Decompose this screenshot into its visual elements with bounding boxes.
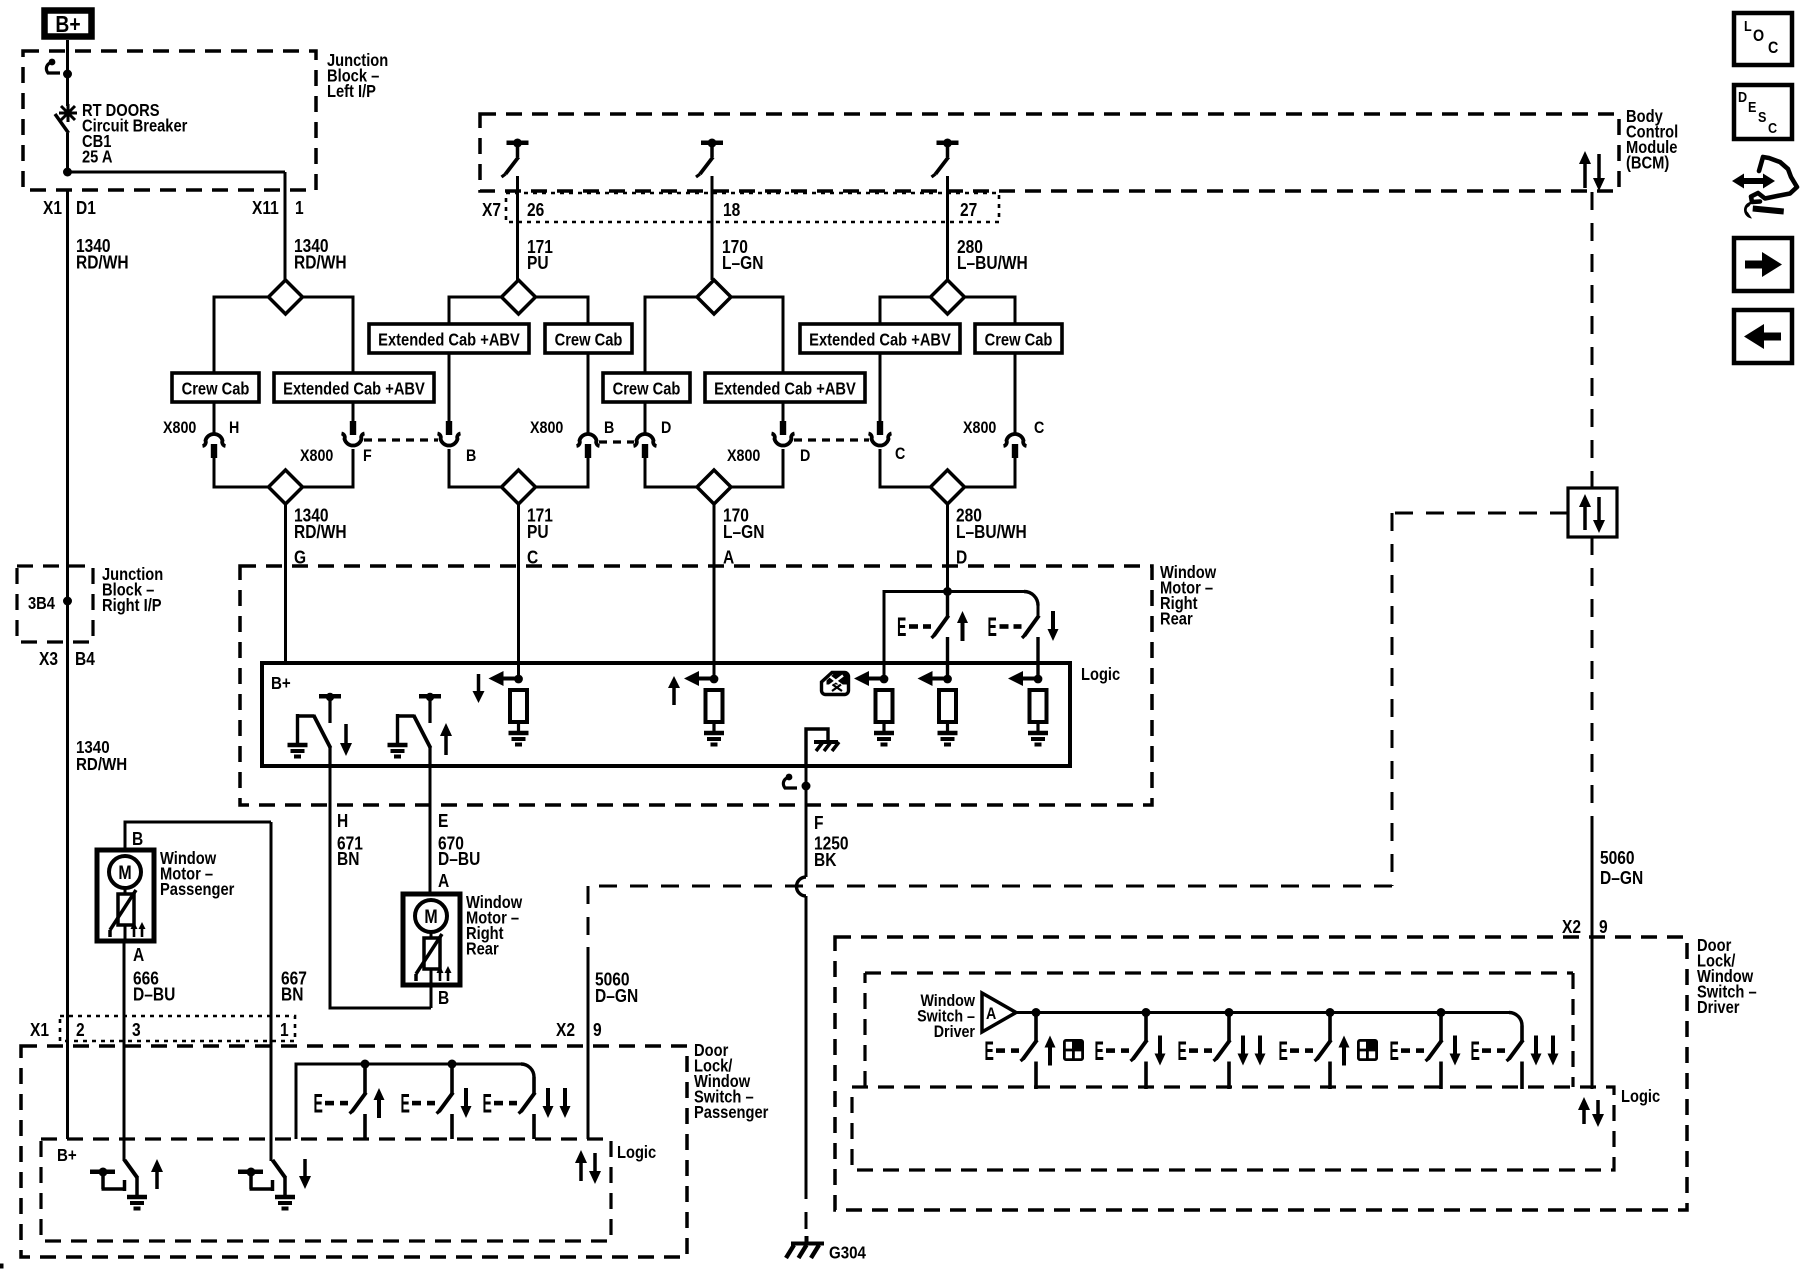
connector X3 B4 labels <box>39 649 95 670</box>
circuit breaker CB1 symbol <box>55 104 77 133</box>
wire 280 L-BU/WH to motor switches <box>946 504 949 592</box>
loop3 right branch wire lower <box>782 449 785 489</box>
svg-text:X800: X800 <box>727 447 761 465</box>
svg-text:2: 2 <box>76 1020 85 1041</box>
X7 pin 26 label <box>527 200 544 221</box>
svg-text:PU: PU <box>527 253 549 274</box>
svg-text:RD/WH: RD/WH <box>294 252 347 273</box>
motor RR internal rail <box>883 590 1039 616</box>
X7 pin 27 label <box>960 200 977 221</box>
X7 pin 18 label <box>723 200 740 221</box>
window switch driver label <box>917 992 976 1041</box>
svg-text:9: 9 <box>593 1020 602 1041</box>
motor RR wire rail-left to logic <box>883 590 886 679</box>
junction block right label <box>102 565 163 615</box>
svg-text:E: E <box>897 612 906 642</box>
svg-text:X2: X2 <box>556 1020 575 1041</box>
wire 5060 D-GN label passenger <box>595 969 638 1006</box>
loop3 right connector label D <box>800 447 810 465</box>
door lock window switch passenger dashed box <box>21 1046 687 1257</box>
svg-text:A: A <box>438 871 449 892</box>
svg-text:S: S <box>1758 108 1766 125</box>
sidebar wiring harness icon <box>1732 157 1797 219</box>
wire B+ to breaker <box>66 40 69 106</box>
svg-text:Extended Cab +ABV: Extended Cab +ABV <box>809 330 951 349</box>
motor logic window glass icon <box>822 673 849 695</box>
motor logic resistor branch down-switch <box>1008 671 1048 745</box>
svg-text:E: E <box>314 1088 323 1118</box>
window motor passenger text label <box>160 849 235 899</box>
motor logic B+ label <box>271 673 291 694</box>
loop1 top legs <box>214 296 353 374</box>
driver rail dot 5 <box>1437 1008 1446 1017</box>
X1 pin 3 label <box>132 1020 141 1041</box>
svg-text:RD/WH: RD/WH <box>76 754 127 775</box>
svg-text:Right I/P: Right I/P <box>102 596 162 615</box>
connector X1 D1 labels <box>43 198 96 219</box>
svg-text:(BCM): (BCM) <box>1626 153 1669 172</box>
driver switch 3 E--/ <box>1178 1013 1266 1090</box>
loop2 bottom diamond junction <box>502 470 536 504</box>
connector X7 strip <box>506 193 999 222</box>
svg-text:C: C <box>1768 119 1777 136</box>
loop4 right branch wire lower <box>1014 457 1017 489</box>
svg-text:O: O <box>1753 27 1764 45</box>
loop1 right connector label F <box>363 447 372 465</box>
svg-text:D: D <box>661 419 671 437</box>
circuit breaker CB1 label <box>82 101 188 167</box>
junction block right I/P dashed box <box>17 566 93 642</box>
motor RR rail junction dot <box>943 587 952 596</box>
svg-text:Left I/P: Left I/P <box>327 82 376 101</box>
svg-text:D–GN: D–GN <box>595 986 638 1007</box>
BCM window switch pin 27 <box>932 139 959 178</box>
loop2 left option box [Extended Cab +ABV] <box>369 324 529 353</box>
passenger logic switch up <box>90 1159 163 1209</box>
svg-text:Extended Cab +ABV: Extended Cab +ABV <box>283 379 425 398</box>
svg-text:E: E <box>438 811 448 832</box>
loop2 top legs <box>449 296 588 325</box>
loop1 right branch wire lower <box>352 449 355 489</box>
svg-text:F: F <box>814 813 823 834</box>
wire 5060 D-GN label driver <box>1600 848 1643 889</box>
svg-text:D: D <box>800 447 810 465</box>
connector X2 9 labels driver <box>1562 917 1608 938</box>
wire 5060 D-GN passenger segment <box>587 947 590 1139</box>
wire 1340 RD/WH label lower <box>76 737 127 775</box>
loop4 left connector label C <box>895 445 905 463</box>
svg-text:Logic: Logic <box>1081 665 1120 684</box>
svg-text:1: 1 <box>295 198 304 219</box>
svg-text:X800: X800 <box>963 419 997 437</box>
loop2 left branch wire lower <box>448 449 451 489</box>
svg-text:F: F <box>363 447 372 465</box>
BCM window up switch pin 26 <box>502 139 529 178</box>
wire 670 D-BU (E) vertical <box>429 766 432 894</box>
driver logic dashed box <box>852 1087 1614 1170</box>
serial data square arrows <box>1579 494 1605 533</box>
loop1 left option box [Crew Cab] <box>172 373 259 402</box>
passenger logic switch down <box>238 1159 311 1209</box>
svg-text:E: E <box>1390 1036 1399 1066</box>
svg-text:3B4: 3B4 <box>28 594 55 613</box>
wire junction to X11 drop <box>68 172 286 190</box>
loop2 right option box [Crew Cab] <box>545 324 632 353</box>
connector hug on 1250 BK wire <box>783 774 810 791</box>
svg-text:H: H <box>229 419 239 437</box>
svg-text:Passenger: Passenger <box>694 1103 769 1122</box>
loop2 right connector label X800 <box>530 419 564 437</box>
svg-text:B: B <box>438 988 449 1009</box>
driver rail dot 4 <box>1326 1008 1335 1017</box>
wire 170 L-GN to motor logic <box>713 504 716 679</box>
svg-text:BN: BN <box>281 984 303 1005</box>
sidebar DESC box <box>1734 85 1792 139</box>
passenger up switch E--/ <box>314 1064 385 1139</box>
motor logic resistor branch A <box>668 671 724 745</box>
loop2 top diamond junction <box>502 280 536 314</box>
wire 667 BN label <box>281 968 307 1005</box>
connector X7 label <box>482 200 501 221</box>
driver inner dashed box <box>865 973 1573 1087</box>
motor logic box <box>262 663 1070 766</box>
svg-text:Crew Cab: Crew Cab <box>555 330 623 349</box>
svg-text:Logic: Logic <box>1621 1087 1660 1106</box>
wire 171 PU label C column <box>527 505 553 568</box>
wire 5060 D-GN driver segment <box>1591 818 1594 1089</box>
svg-text:D: D <box>1738 88 1747 105</box>
wire 666 D-BU segment <box>123 941 126 1161</box>
loop4 right connector label C <box>1034 419 1044 437</box>
sidebar LOC box <box>1734 13 1792 65</box>
loop2 right branch wire upper <box>587 353 590 433</box>
svg-text:BK: BK <box>814 850 837 871</box>
driver switch rail <box>1016 1013 1522 1026</box>
passenger logic label <box>617 1143 656 1162</box>
loop2 bottom legs <box>449 486 588 489</box>
passenger switch rail <box>295 1064 535 1139</box>
svg-text:9: 9 <box>1599 917 1608 938</box>
BCM window switch pin 18 <box>696 139 723 178</box>
svg-text:X7: X7 <box>482 200 501 221</box>
svg-text:B: B <box>466 447 476 465</box>
serial data dashed branch left <box>1392 512 1568 515</box>
passenger rail dot 1 <box>361 1060 370 1069</box>
svg-text:H: H <box>337 811 348 832</box>
svg-text:E: E <box>401 1088 410 1118</box>
wire 667 BN segment <box>270 1016 273 1161</box>
svg-text:27: 27 <box>960 200 977 221</box>
connector X1 strip <box>60 1016 295 1041</box>
BCM wire to pin 27 <box>946 176 949 280</box>
BCM wire to pin 26 <box>516 176 519 280</box>
motor logic resistor branch C <box>473 671 529 745</box>
svg-text:D–BU: D–BU <box>438 849 480 870</box>
motor logic resistor branch rail-left <box>854 671 894 745</box>
svg-text:B: B <box>604 419 614 437</box>
svg-text:18: 18 <box>723 200 740 221</box>
wire 280 L-BU/WH label D column <box>956 505 1027 568</box>
wire 1250 BK (F) upper <box>805 766 808 877</box>
loop3 left connector label D <box>661 419 671 437</box>
svg-text:C: C <box>895 445 905 463</box>
driver switch 5 E--/ <box>1390 1013 1461 1090</box>
dashed link connector B to D <box>599 440 634 443</box>
wire 1340 RD/WH label G column <box>294 505 347 568</box>
svg-text:E: E <box>1095 1036 1104 1066</box>
serial data dashed branch down <box>1391 513 1394 886</box>
loop3 left branch wire lower <box>644 457 647 489</box>
window motor passenger pin A label <box>133 945 144 966</box>
motor RR up switch E--/ <box>897 592 968 680</box>
loop4 right connector X800 (arc top) <box>1004 434 1027 458</box>
loop1 left connector label X800 <box>163 419 197 437</box>
svg-text:Driver: Driver <box>1697 998 1740 1017</box>
svg-text:A: A <box>723 547 734 568</box>
door lock driver label <box>1697 936 1757 1017</box>
loop2 right connector X800 (arc top) <box>577 434 600 458</box>
svg-text:B4: B4 <box>75 649 95 670</box>
BCM serial data up-down arrows <box>1579 151 1605 191</box>
wire 1340 RD/WH to motor logic B+ <box>284 504 287 663</box>
svg-text:B+: B+ <box>57 1145 77 1166</box>
svg-text:5060: 5060 <box>1600 848 1635 869</box>
battery feed B+ terminal box <box>45 11 92 38</box>
wire motor B elbow <box>124 822 272 1016</box>
loop4 left branch wire upper <box>879 353 882 422</box>
connector hug symbol on B+ wire <box>46 59 60 73</box>
loop1 top diamond junction <box>269 280 303 314</box>
3B4 node label <box>28 594 55 613</box>
svg-text:G304: G304 <box>829 1242 867 1263</box>
svg-text:E: E <box>985 1036 994 1066</box>
loop1 left branch wire lower <box>213 457 216 489</box>
loop1 left branch wire upper <box>213 402 216 433</box>
passenger rail dot 2 <box>448 1060 457 1069</box>
loop3 right connector X800 (pin top) <box>772 421 795 446</box>
motor logic Logic label <box>1081 665 1120 684</box>
loop1 left connector label H <box>229 419 239 437</box>
dashed link connector F to B <box>364 438 438 441</box>
svg-text:Crew Cab: Crew Cab <box>985 330 1053 349</box>
svg-text:B: B <box>132 829 143 850</box>
window motor passenger component <box>97 850 154 941</box>
wire 280 L-BU/WH label top <box>957 237 1028 274</box>
loop3 left connector X800 (arc top) <box>634 434 657 458</box>
svg-text:B+: B+ <box>55 13 80 38</box>
wire 1250 BK lower <box>805 896 808 1229</box>
junction dot D1/1 <box>63 168 72 177</box>
svg-text:RD/WH: RD/WH <box>294 522 347 543</box>
loop2 right branch wire lower <box>587 457 590 489</box>
loop2 right connector label B <box>604 419 614 437</box>
svg-text:X2: X2 <box>1562 917 1581 938</box>
svg-text:25 A: 25 A <box>82 147 113 166</box>
svg-text:A: A <box>986 1005 996 1023</box>
wire 1340 RD/WH label right <box>294 236 347 273</box>
sidebar prev-page arrow box <box>1734 310 1792 363</box>
loop4 right connector label X800 <box>963 419 997 437</box>
motor logic resistor branch up-switch <box>918 671 958 745</box>
BCM label <box>1626 107 1678 173</box>
driver switch 1 E--/ <box>985 1013 1084 1090</box>
loop1 bottom legs <box>214 486 353 489</box>
wire 1340 RD/WH label left <box>76 236 129 273</box>
loop4 right option box [Crew Cab] <box>975 324 1062 353</box>
driver switch 4 E--/ <box>1279 1013 1378 1090</box>
loop2 left connector X800 (pin top) <box>438 421 461 446</box>
window motor right rear label <box>1160 563 1217 629</box>
svg-text:E: E <box>988 612 997 642</box>
svg-text:E: E <box>1748 98 1756 115</box>
window motor right rear text label <box>466 893 523 959</box>
svg-text:D–BU: D–BU <box>133 984 175 1005</box>
loop1 bottom diamond junction <box>269 470 303 504</box>
loop2 left connector label B <box>466 447 476 465</box>
door lock passenger label <box>694 1041 769 1122</box>
wire 1340 RD/WH to loop1 <box>284 190 287 280</box>
serial data dashed branch to passenger <box>588 886 1392 947</box>
window motor right rear pin A label <box>438 871 449 892</box>
svg-text:Rear: Rear <box>1160 609 1193 628</box>
passenger logic serial arrows <box>575 1150 601 1184</box>
svg-text:E: E <box>1279 1036 1288 1066</box>
loop3 right connector label X800 <box>727 447 761 465</box>
loop4 bottom diamond junction <box>931 470 965 504</box>
loop4 top diamond junction <box>931 280 965 314</box>
wire 1250 BK hop over dashed wire <box>797 877 806 896</box>
svg-text:Extended Cab +ABV: Extended Cab +ABV <box>714 379 856 398</box>
driver logic label <box>1621 1087 1660 1106</box>
wire 671 BN (H) vertical <box>329 766 332 1010</box>
svg-text:Passenger: Passenger <box>160 880 235 899</box>
loop4 top legs <box>880 296 1015 325</box>
svg-text:L–BU/WH: L–BU/WH <box>956 522 1027 543</box>
svg-text:Crew Cab: Crew Cab <box>182 379 250 398</box>
passenger express down switch E--/ <box>483 1077 571 1139</box>
window switch driver amplifier triangle <box>982 993 1016 1032</box>
passenger logic dashed box <box>41 1139 611 1241</box>
connector X2 9 labels passenger <box>556 1020 602 1041</box>
junction dot on B+ wire <box>63 70 72 79</box>
driver switch 6 E--/ <box>1471 1026 1559 1090</box>
wire 170 L-GN label top <box>722 237 763 274</box>
junction block left label <box>327 51 388 101</box>
svg-text:L–GN: L–GN <box>723 522 764 543</box>
svg-text:X3: X3 <box>39 649 58 670</box>
svg-text:1: 1 <box>280 1020 289 1041</box>
svg-text:M: M <box>424 906 437 928</box>
window motor right rear pin B label <box>438 988 449 1009</box>
driver rail dot 3 <box>1225 1008 1234 1017</box>
wire 1250 BK label <box>814 813 849 871</box>
svg-text:E: E <box>1471 1036 1480 1066</box>
3B4 junction dot <box>63 597 72 606</box>
connector X11 1 labels <box>252 198 304 219</box>
loop1 right connector X800 (pin top) <box>342 421 365 446</box>
loop3 left option box [Crew Cab] <box>603 373 690 402</box>
svg-text:X11: X11 <box>252 198 279 219</box>
svg-text:X800: X800 <box>300 447 334 465</box>
driver rail dot 1 <box>1032 1008 1041 1017</box>
serial data dashed wire from BCM <box>1591 192 1594 488</box>
svg-text:RD/WH: RD/WH <box>76 252 129 273</box>
svg-text:Rear: Rear <box>466 939 499 958</box>
dashed link connector D to C <box>794 438 869 441</box>
wire 171 PU label top <box>527 237 553 274</box>
loop1 right branch wire upper <box>352 402 355 422</box>
loop3 top diamond junction <box>697 280 731 314</box>
loop3 right branch wire upper <box>782 402 785 422</box>
svg-text:Crew Cab: Crew Cab <box>613 379 681 398</box>
window motor passenger pin B label <box>132 829 143 850</box>
sidebar next-page arrow box <box>1734 238 1792 291</box>
motor logic switch H (down) <box>288 693 353 766</box>
wire 1340 RD/WH to passenger switch <box>66 566 69 1139</box>
ground G304 label <box>829 1242 867 1263</box>
loop1 right connector label X800 <box>300 447 334 465</box>
motor RR down switch E--/ <box>988 611 1059 679</box>
svg-text:C: C <box>1034 419 1044 437</box>
svg-text:D1: D1 <box>76 198 96 219</box>
loop4 left connector X800 (pin top) <box>869 421 892 446</box>
svg-text:L–BU/WH: L–BU/WH <box>957 253 1028 274</box>
window motor right rear component <box>403 894 460 985</box>
svg-text:L: L <box>1744 17 1752 34</box>
connector X1 label <box>30 1020 49 1041</box>
passenger logic B+ label <box>57 1145 77 1166</box>
svg-text:PU: PU <box>527 522 549 543</box>
svg-text:D–GN: D–GN <box>1600 868 1643 889</box>
svg-text:Driver: Driver <box>934 1023 975 1041</box>
BCM wire to pin 18 <box>711 176 714 280</box>
window motor right rear dashed box <box>240 566 1152 805</box>
door lock window switch driver dashed box <box>835 937 1687 1210</box>
svg-text:E: E <box>1178 1036 1187 1066</box>
loop4 left option box [Extended Cab +ABV] <box>800 324 960 353</box>
svg-text:C: C <box>1768 39 1778 57</box>
wire 666 D-BU label <box>133 968 175 1005</box>
loop1 left connector X800 (arc top) <box>203 434 226 458</box>
svg-text:L–GN: L–GN <box>722 253 763 274</box>
wire 671 BN label <box>337 811 363 870</box>
loop4 bottom legs <box>880 486 1015 489</box>
loop4 right branch wire upper <box>1014 353 1017 433</box>
driver switch 2 E--/ <box>1095 1013 1166 1090</box>
X1 pin 1 label <box>280 1020 289 1041</box>
loop1 right option box [Extended Cab +ABV] <box>274 373 434 402</box>
svg-text:A: A <box>133 945 144 966</box>
loop3 bottom legs <box>645 486 783 489</box>
passenger down switch E--/ <box>401 1064 472 1139</box>
svg-text:X1: X1 <box>30 1020 49 1041</box>
svg-text:3: 3 <box>132 1020 141 1041</box>
svg-text:E: E <box>483 1088 492 1118</box>
svg-text:BN: BN <box>337 849 359 870</box>
junction block - left I/P dashed box <box>23 51 316 190</box>
corner artifact bottom-left <box>0 1264 4 1269</box>
X1 pin 2 label <box>76 1020 85 1041</box>
loop4 left branch wire lower <box>879 449 882 489</box>
svg-text:26: 26 <box>527 200 544 221</box>
wire 670 D-BU label <box>438 811 480 870</box>
svg-text:Logic: Logic <box>617 1143 656 1162</box>
motor logic switch E (up) <box>388 693 453 766</box>
svg-text:M: M <box>118 862 131 884</box>
svg-text:B+: B+ <box>271 673 291 694</box>
svg-text:X800: X800 <box>530 419 564 437</box>
loop3 top legs <box>645 296 783 374</box>
